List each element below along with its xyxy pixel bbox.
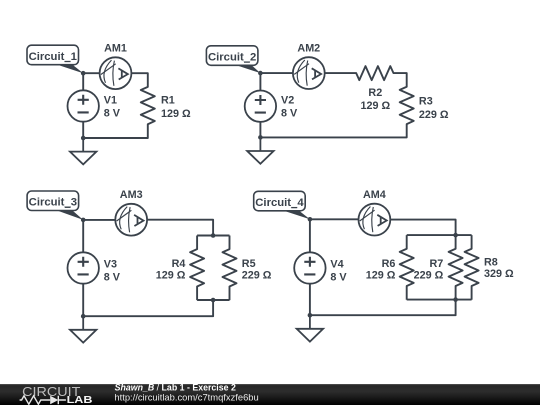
svg-text:8 V: 8 V: [281, 107, 298, 119]
svg-text:229 Ω: 229 Ω: [419, 109, 449, 121]
svg-text:129 Ω: 129 Ω: [360, 100, 390, 112]
svg-text:R4: R4: [172, 258, 186, 270]
svg-text:129 Ω: 129 Ω: [366, 269, 396, 281]
svg-text:http://circuitlab.com/c7tmqfxz: http://circuitlab.com/c7tmqfxzfe6bu: [114, 392, 258, 403]
svg-text:R5: R5: [242, 258, 256, 270]
svg-text:229 Ω: 229 Ω: [242, 269, 272, 281]
svg-text:V1: V1: [104, 94, 117, 106]
svg-text:AM2: AM2: [297, 43, 320, 55]
svg-text:AM4: AM4: [363, 189, 386, 201]
svg-text:R2: R2: [368, 87, 382, 99]
svg-text:R7: R7: [429, 258, 443, 270]
svg-text:V3: V3: [104, 259, 117, 271]
svg-text:V4: V4: [330, 259, 343, 271]
svg-text:R8: R8: [484, 257, 498, 269]
svg-text:329 Ω: 329 Ω: [484, 268, 514, 280]
svg-text:129 Ω: 129 Ω: [161, 108, 191, 120]
svg-text:AM3: AM3: [120, 189, 143, 201]
svg-text:R1: R1: [161, 94, 175, 106]
svg-text:8 V: 8 V: [104, 272, 121, 284]
svg-text:R3: R3: [419, 96, 433, 108]
svg-text:LAB: LAB: [67, 395, 93, 405]
svg-text:8 V: 8 V: [330, 272, 347, 284]
svg-text:229 Ω: 229 Ω: [414, 269, 444, 281]
svg-text:8 V: 8 V: [104, 107, 121, 119]
svg-text:V2: V2: [281, 95, 294, 107]
svg-text:AM1: AM1: [104, 43, 127, 55]
svg-text:129 Ω: 129 Ω: [156, 269, 186, 281]
svg-text:R6: R6: [382, 258, 396, 270]
